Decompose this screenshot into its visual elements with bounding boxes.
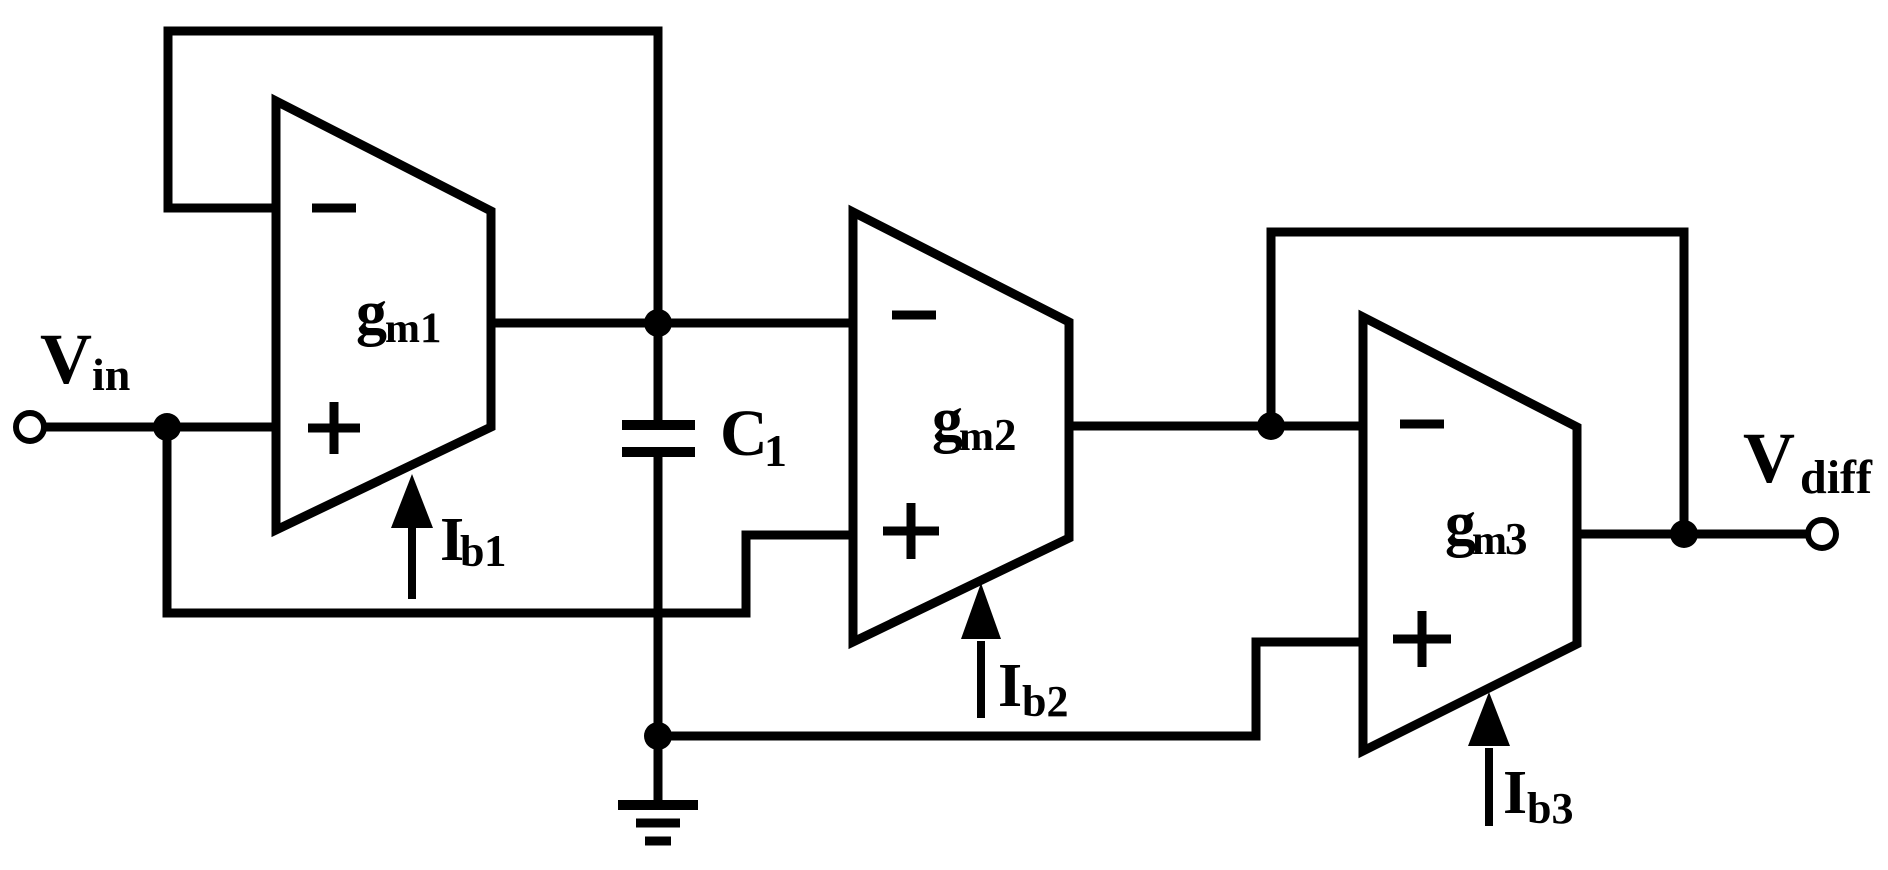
input terminal Vin	[16, 413, 44, 441]
gm1 non-inverting input plus sign	[308, 424, 360, 433]
wire: gm2 output to gm3 inverting input	[1069, 422, 1363, 431]
wire: gm1 output to gm2 inverting input	[491, 319, 853, 328]
wire: gm3 feedback loop from node C up over to gm3 output node	[1271, 232, 1684, 534]
svg-text:diff: diff	[1800, 451, 1873, 504]
wire: Vin junction down and across to gm2 non-inverting input	[167, 427, 853, 613]
svg-text:2: 2	[994, 410, 1017, 460]
capacitor C1	[622, 420, 695, 430]
svg-text:m: m	[959, 414, 994, 460]
node (Vin junction) dot	[153, 413, 181, 441]
svg-text:I: I	[998, 652, 1022, 720]
wire: capacitor bottom plate down to ground node B	[654, 456, 663, 736]
svg-text:g: g	[356, 279, 387, 347]
svg-text:b3: b3	[1527, 784, 1573, 833]
wire: gm1 feedback loop from output node to inverting input	[168, 31, 658, 325]
svg-text:3: 3	[1505, 514, 1528, 564]
svg-text:1: 1	[764, 425, 787, 476]
svg-text:1: 1	[420, 305, 442, 352]
node B junction dot (ground node)	[644, 722, 672, 750]
svg-text:C: C	[720, 397, 768, 470]
svg-text:m: m	[1472, 518, 1507, 564]
op-amp U2 (gm2)	[853, 212, 1069, 642]
svg-text:V: V	[40, 319, 92, 399]
svg-text:1: 1	[484, 526, 507, 576]
node C junction dot (gm2 output)	[1257, 412, 1285, 440]
node A junction dot (gm1 output)	[644, 309, 672, 337]
svg-text:V: V	[1743, 418, 1795, 498]
wire: node B to gm3 non-inverting input	[658, 642, 1363, 736]
gm3 non-inverting input plus sign	[1393, 635, 1451, 644]
node D junction dot (gm3 output)	[1670, 520, 1698, 548]
wire: node A down to capacitor C1	[654, 323, 663, 421]
op-amp U3 (gm3)	[1363, 317, 1577, 751]
wire: gm3 output to Vdiff terminal	[1577, 530, 1806, 539]
current source arrow Ib2	[977, 641, 985, 718]
current source arrow Ib3	[1485, 748, 1493, 826]
svg-text:in: in	[92, 349, 130, 400]
gm2 non-inverting input plus sign	[883, 527, 939, 536]
svg-text:b: b	[460, 527, 484, 576]
gm3 inverting input minus sign	[1400, 420, 1444, 429]
current source arrow Ib1	[408, 524, 416, 599]
svg-text:m: m	[385, 306, 420, 352]
gm1 inverting input minus sign	[312, 204, 356, 213]
op-amp U1 (gm1)	[276, 101, 491, 530]
output terminal Vdiff	[1808, 520, 1836, 548]
ground	[654, 736, 663, 805]
svg-text:I: I	[1503, 759, 1527, 827]
svg-text:b2: b2	[1022, 677, 1068, 726]
gm2 inverting input minus sign	[892, 311, 936, 320]
wire: Vin to gm1 non-inverting input	[44, 423, 276, 432]
